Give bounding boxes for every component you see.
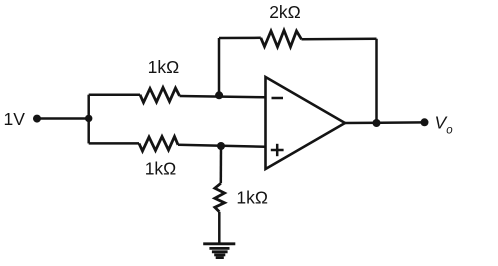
op-amp U1 inverting pin minus marking: [272, 97, 284, 100]
svg-text:1kΩ: 1kΩ: [236, 188, 268, 208]
wire feedback top right: [302, 38, 377, 41]
terminal node 1V input: [33, 115, 41, 123]
resistor R3 2kΩ feedback: [261, 30, 302, 47]
node B inverting input junction: [215, 91, 223, 99]
wire node A to R2: [89, 142, 139, 145]
op-amp U1: [266, 77, 346, 169]
wire output: [345, 121, 425, 124]
svg-text:1kΩ: 1kΩ: [148, 57, 180, 77]
wire R1 to inverting input: [180, 96, 266, 97]
wire feedback top left: [219, 37, 261, 40]
wire vertical at node A: [87, 95, 90, 144]
wire node C down to R4: [220, 146, 223, 183]
resistor R4 1kΩ to ground: [215, 183, 225, 212]
op-amp U1 noninverting pin plus marking: [271, 144, 284, 156]
terminal node output: [421, 118, 429, 126]
wire input terminal to junction A: [37, 117, 89, 120]
resistor R2 1kΩ bottom input branch: [139, 137, 178, 152]
svg-text:1kΩ: 1kΩ: [145, 159, 177, 179]
wire feedback right vertical: [375, 39, 378, 123]
node C noninverting input junction: [217, 142, 225, 150]
ground: [203, 244, 235, 258]
wire R2 to noninverting input: [178, 145, 266, 147]
wire feedback left vertical: [218, 38, 221, 95]
svg-text:2kΩ: 2kΩ: [269, 2, 301, 22]
junction node A: [85, 115, 92, 122]
svg-text:1V: 1V: [4, 109, 26, 129]
wire node A to R1: [89, 93, 140, 96]
node D output junction: [373, 119, 381, 127]
wire R4 to ground: [218, 212, 221, 244]
resistor R1 1kΩ top input branch: [140, 88, 180, 103]
